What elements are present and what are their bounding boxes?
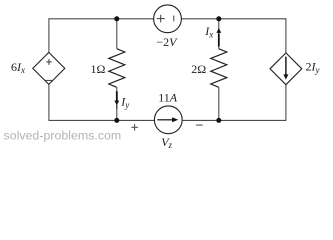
wire top-left: [49, 18, 154, 20]
dependent current source 2Iy diamond: [270, 53, 302, 85]
minus polarity Vz: [196, 124, 203, 126]
wire bottom-right: [182, 119, 286, 121]
node dot bottom of 1ohm: [114, 118, 119, 123]
wire 2ohm branch lower: [218, 87, 220, 120]
plus polarity Vz: [131, 124, 138, 131]
svg-text:2Ω: 2Ω: [191, 62, 206, 76]
wire bottom-left: [49, 119, 155, 121]
svg-text:Iy: Iy: [120, 95, 129, 111]
resistor 1ohm zigzag: [109, 49, 125, 88]
node dot top of 2ohm: [216, 16, 221, 21]
wire 1ohm branch lower: [116, 87, 118, 120]
current arrow Iy (down): [114, 91, 119, 108]
current source 11A circle: [154, 106, 182, 134]
svg-text:solved-problems.com: solved-problems.com: [4, 128, 122, 142]
node dot bottom of 2ohm: [216, 118, 221, 123]
svg-text:6Ix: 6Ix: [11, 60, 25, 75]
svg-text:2Iy: 2Iy: [306, 60, 320, 76]
svg-text:1Ω: 1Ω: [91, 62, 106, 76]
wire right branch lower: [285, 85, 287, 121]
svg-text:11A: 11A: [158, 90, 178, 104]
svg-text:−2V: −2V: [156, 35, 178, 49]
dependent voltage source 6Ix diamond: [33, 52, 65, 84]
current arrow Ix (up): [216, 28, 221, 47]
wire right branch upper: [285, 18, 287, 53]
wire 2ohm branch upper: [218, 19, 220, 49]
wire top-right: [181, 18, 286, 20]
svg-text:Vz: Vz: [161, 135, 172, 150]
node dot top of 1ohm: [114, 16, 119, 21]
wire left branch upper: [48, 18, 50, 52]
wire 1ohm branch upper: [116, 19, 118, 49]
resistor 2ohm zigzag: [211, 49, 227, 88]
wire left branch lower: [48, 84, 50, 121]
svg-text:Ix: Ix: [204, 24, 213, 40]
voltage source -2V circle: [154, 5, 182, 33]
